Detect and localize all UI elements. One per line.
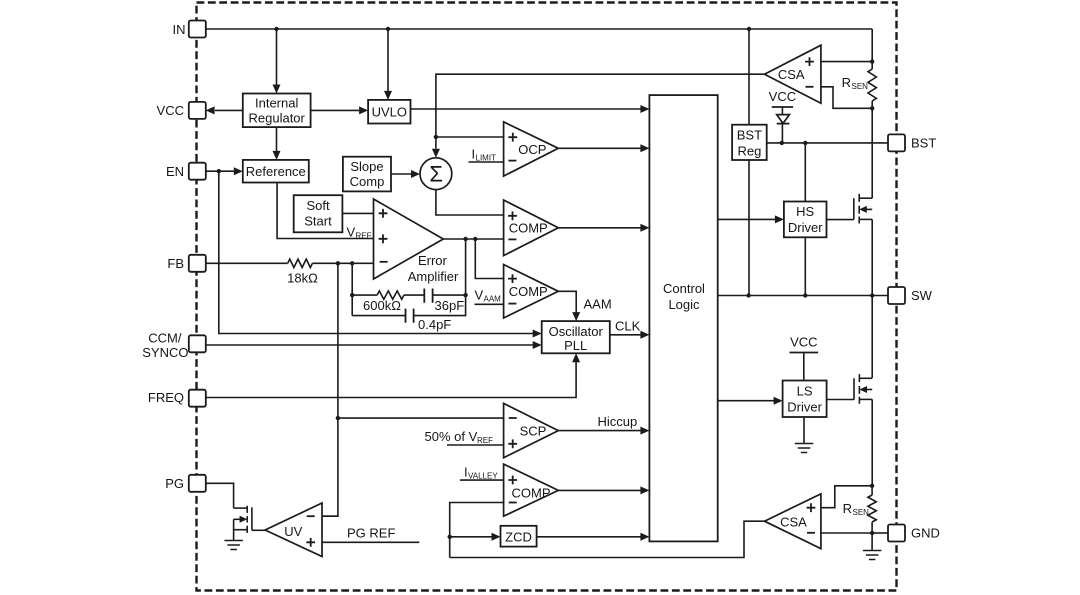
block ZCD xyxy=(501,526,537,547)
wire OCP output to Control Logic xyxy=(558,147,641,149)
svg-text:VCC: VCC xyxy=(790,335,817,350)
wire sense node through RSEN xyxy=(871,486,873,495)
wire PG pin to MOSFET drain xyxy=(204,483,234,508)
wire VCC to Internal Regulator xyxy=(215,109,243,111)
wire CSA plus input xyxy=(821,61,872,63)
amplifier CSA low-side xyxy=(765,494,821,549)
svg-text:VALLEY: VALLEY xyxy=(468,472,498,481)
wire VCC diode to BST line xyxy=(781,107,783,115)
wire BST line xyxy=(767,142,888,144)
wire CSA output to summing junction and OCP xyxy=(436,74,765,149)
block Soft Start xyxy=(294,195,343,232)
wire Control Logic to HS Driver xyxy=(718,218,775,220)
ground at PG MOSFET xyxy=(224,541,243,550)
wire BST Reg to SW xyxy=(748,160,750,296)
wire error amplifier output to COMP xyxy=(443,238,503,240)
capacitor 36pF xyxy=(424,289,432,303)
svg-text:50% of V: 50% of V xyxy=(425,429,478,444)
svg-text:LS: LS xyxy=(797,384,813,399)
svg-text:Driver: Driver xyxy=(788,220,823,235)
svg-text:Σ: Σ xyxy=(429,162,443,187)
block HS Driver xyxy=(784,202,827,238)
svg-text:SCP: SCP xyxy=(520,423,547,438)
wire LS source down to CSA sense node xyxy=(871,399,873,485)
resistor 600k xyxy=(377,291,404,299)
svg-text:Oscillator: Oscillator xyxy=(549,324,604,339)
wire SCP output Hiccup to Control Logic xyxy=(558,430,641,432)
comparator COMP AAM xyxy=(504,265,559,319)
wire GND to ground symbol xyxy=(871,533,873,551)
pin GND xyxy=(888,525,905,542)
svg-text:CSA: CSA xyxy=(780,514,807,529)
wire EN to Reference xyxy=(206,170,234,172)
wire CSA2 minus input xyxy=(821,532,872,534)
wire VCC to LS Driver xyxy=(803,353,805,380)
svg-text:Amplifier: Amplifier xyxy=(408,269,459,284)
wire summing junction to COMP xyxy=(436,190,504,215)
svg-text:REF: REF xyxy=(356,232,372,241)
block Control Logic xyxy=(649,95,717,541)
pin SW xyxy=(888,287,905,304)
op-amp error amplifier xyxy=(374,199,444,279)
block Internal Regulator xyxy=(243,94,311,128)
svg-text:ZCD: ZCD xyxy=(505,529,532,544)
svg-text:V: V xyxy=(347,225,356,240)
svg-text:COMP: COMP xyxy=(509,220,548,235)
svg-text:BST: BST xyxy=(911,136,936,151)
block Reference xyxy=(243,160,309,183)
wire ZCD output to Control Logic xyxy=(537,536,641,538)
pin IN xyxy=(189,21,206,38)
wire IN to Internal Regulator xyxy=(276,29,278,85)
svg-text:Hiccup: Hiccup xyxy=(598,414,638,429)
svg-text:EN: EN xyxy=(166,164,184,179)
comparator SCP xyxy=(504,403,559,457)
svg-text:COMP: COMP xyxy=(512,485,551,500)
wire SW rail xyxy=(718,295,888,297)
wire error amp output tap to AAM COMP plus xyxy=(475,239,503,279)
wire Oscillator PLL CLK output to Control Logic xyxy=(610,334,641,336)
svg-text:AAM: AAM xyxy=(584,297,612,312)
svg-text:LIMIT: LIMIT xyxy=(476,154,497,163)
svg-text:SYNCO: SYNCO xyxy=(142,345,188,360)
wire CSA minus input xyxy=(821,87,872,109)
summing junction xyxy=(420,158,452,190)
wire IN branch down through RSEN to HS drain xyxy=(871,29,873,69)
wire UV plus input PG REF xyxy=(322,541,419,543)
wire FB branch to compensation network xyxy=(351,263,353,315)
block LS Driver xyxy=(783,381,827,418)
svg-text:AAM: AAM xyxy=(484,295,502,304)
wire HS driver return to SW xyxy=(804,237,806,295)
comparator COMP current xyxy=(504,200,559,256)
pin FREQ xyxy=(189,390,206,407)
svg-text:CLK: CLK xyxy=(615,319,641,334)
wire EN branch to Oscillator PLL xyxy=(219,171,533,333)
wire Slope Comp to summing junction xyxy=(391,173,411,175)
svg-text:CSA: CSA xyxy=(778,67,805,82)
wire ZCD input xyxy=(450,536,492,538)
pin FB xyxy=(189,255,206,272)
ground at CSA sense xyxy=(863,551,882,560)
block BST Reg xyxy=(732,125,767,160)
svg-text:PLL: PLL xyxy=(564,338,587,353)
svg-text:Logic: Logic xyxy=(668,297,700,312)
wire UV minus input xyxy=(322,515,338,517)
svg-text:BST: BST xyxy=(737,128,762,143)
svg-text:OCP: OCP xyxy=(518,142,546,157)
wire 50% of VREF to SCP plus xyxy=(447,444,504,446)
svg-text:V: V xyxy=(475,288,484,303)
wire Control Logic to LS Driver xyxy=(718,400,774,402)
svg-text:PG REF: PG REF xyxy=(347,526,395,541)
amplifier CSA high-side xyxy=(765,45,821,103)
wire UV output to PG MOSFET gate xyxy=(252,529,265,531)
wire FB branch down to SCP and UV xyxy=(337,263,339,418)
wire FREQ to Oscillator PLL xyxy=(206,362,576,398)
svg-text:Slope: Slope xyxy=(350,159,383,174)
wire GND pin line xyxy=(872,532,888,534)
wire ILIMIT to OCP minus input xyxy=(469,161,504,163)
comparator COMP valley xyxy=(504,464,559,516)
svg-text:Reg: Reg xyxy=(737,144,761,159)
diode BST xyxy=(777,115,790,124)
wire CSA low-side output line xyxy=(450,521,765,557)
svg-text:SEN: SEN xyxy=(852,82,869,91)
pin PG xyxy=(189,475,206,492)
wire Reference to error amplifier VREF input xyxy=(277,183,373,239)
wire HS driver supply from BST xyxy=(804,143,806,202)
wire CSA2 plus input xyxy=(821,486,872,508)
wire valley COMP minus from CSA sense line xyxy=(450,503,504,558)
wire IN rail xyxy=(206,28,873,30)
svg-text:Control: Control xyxy=(663,281,705,296)
resistor 18k xyxy=(288,259,313,267)
svg-text:FB: FB xyxy=(167,256,184,271)
svg-text:UV: UV xyxy=(284,524,302,539)
wire AAM COMP output to Oscillator PLL xyxy=(558,291,576,312)
svg-text:SW: SW xyxy=(911,288,933,303)
pin BST xyxy=(888,134,905,151)
ground at LS Driver xyxy=(795,444,814,453)
wire HS source to SW xyxy=(871,219,873,295)
svg-text:Internal: Internal xyxy=(255,96,298,111)
svg-text:COMP: COMP xyxy=(509,284,548,299)
resistor RSEN bottom xyxy=(868,495,876,522)
svg-text:Start: Start xyxy=(304,214,332,229)
wire SW to LS drain xyxy=(871,296,873,378)
arrowheads xyxy=(206,85,784,541)
svg-text:FREQ: FREQ xyxy=(148,390,184,405)
transistor PG MOSFET xyxy=(234,506,252,541)
capacitor 0.4pF xyxy=(406,309,414,323)
svg-text:600kΩ: 600kΩ xyxy=(363,298,401,313)
transistor HS MOSFET xyxy=(827,194,873,224)
svg-text:18kΩ: 18kΩ xyxy=(287,271,318,286)
svg-text:36pF: 36pF xyxy=(435,298,465,313)
wire IN to UVLO xyxy=(387,29,389,91)
pin EN xyxy=(189,163,206,180)
comparator OCP xyxy=(504,122,559,176)
wire valley COMP output to Control Logic xyxy=(558,489,641,491)
svg-text:REF: REF xyxy=(477,436,493,445)
svg-text:Comp: Comp xyxy=(350,174,385,189)
wire LS Driver to ground xyxy=(803,417,805,444)
pin VCC xyxy=(189,102,206,119)
wire compensation upper branch xyxy=(352,294,377,296)
wire VAAM to AAM COMP minus xyxy=(475,303,504,305)
wire COMP output to Control Logic xyxy=(558,227,641,229)
wire OCP plus input tap xyxy=(436,136,504,138)
svg-text:Driver: Driver xyxy=(787,400,822,415)
svg-text:IN: IN xyxy=(173,22,186,37)
svg-text:CCM/: CCM/ xyxy=(148,331,182,346)
block UVLO xyxy=(368,100,410,124)
svg-text:R: R xyxy=(843,501,852,516)
wire IVALLEY to valley COMP plus xyxy=(460,479,504,481)
svg-text:GND: GND xyxy=(911,526,940,541)
wire UVLO to Control Logic xyxy=(411,108,642,110)
comparator UV xyxy=(265,503,322,557)
wire Internal Regulator to UVLO xyxy=(311,109,359,111)
transistor LS MOSFET xyxy=(827,374,873,404)
svg-text:Reference: Reference xyxy=(246,164,306,179)
svg-text:0.4pF: 0.4pF xyxy=(418,317,451,332)
wire Internal Regulator to Reference xyxy=(276,127,278,151)
block Oscillator PLL xyxy=(542,321,610,353)
svg-text:UVLO: UVLO xyxy=(372,104,407,119)
wire Soft Start to error amplifier xyxy=(342,212,373,214)
svg-text:VCC: VCC xyxy=(769,89,796,104)
pin CCM/SYNCO xyxy=(189,335,206,352)
svg-text:SEN: SEN xyxy=(853,508,870,517)
svg-text:VCC: VCC xyxy=(157,103,184,118)
resistor RSEN top xyxy=(868,69,876,101)
wire compensation lower branch xyxy=(352,315,405,317)
svg-text:Soft: Soft xyxy=(306,198,330,213)
block Slope Comp xyxy=(343,157,391,192)
svg-text:PG: PG xyxy=(165,476,184,491)
wire IN to BST Reg xyxy=(748,29,750,125)
wire CCM/SYNCO to Oscillator PLL xyxy=(206,344,533,346)
svg-text:R: R xyxy=(842,75,851,90)
wire FB input xyxy=(206,262,288,264)
svg-text:HS: HS xyxy=(796,204,814,219)
svg-text:Regulator: Regulator xyxy=(249,111,306,126)
IC boundary dashed border xyxy=(197,3,897,591)
svg-text:Error: Error xyxy=(418,253,448,268)
